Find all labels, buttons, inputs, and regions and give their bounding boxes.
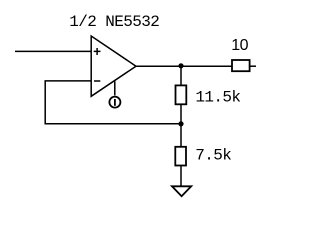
wire R3 to ground xyxy=(180,166,182,187)
wire node A to R2 xyxy=(180,66,182,85)
power indicator circle below op-amp xyxy=(109,97,120,108)
svg-text:10: 10 xyxy=(231,37,248,54)
svg-text:7.5k: 7.5k xyxy=(195,146,231,164)
wire non-inverting input xyxy=(15,50,91,52)
wire output stub after R1 xyxy=(250,65,256,67)
wire node B to R3 xyxy=(180,124,182,147)
resistor R1 10 xyxy=(232,60,250,71)
resistor R3 7.5k xyxy=(175,147,186,166)
resistor R2 11.5k xyxy=(176,85,187,104)
svg-text:1/2 NE5532: 1/2 NE5532 xyxy=(69,13,159,31)
node A junction dot xyxy=(178,63,183,68)
ground xyxy=(172,186,191,196)
node B junction dot xyxy=(178,121,183,126)
svg-text:11.5k: 11.5k xyxy=(195,88,240,106)
wire R2 to node B xyxy=(180,104,182,124)
wire feedback from inverting input to node B xyxy=(45,81,181,124)
op-amp U1 xyxy=(91,36,136,96)
wire power stub below op-amp xyxy=(114,81,116,95)
wire op-amp output to node A xyxy=(136,65,232,67)
